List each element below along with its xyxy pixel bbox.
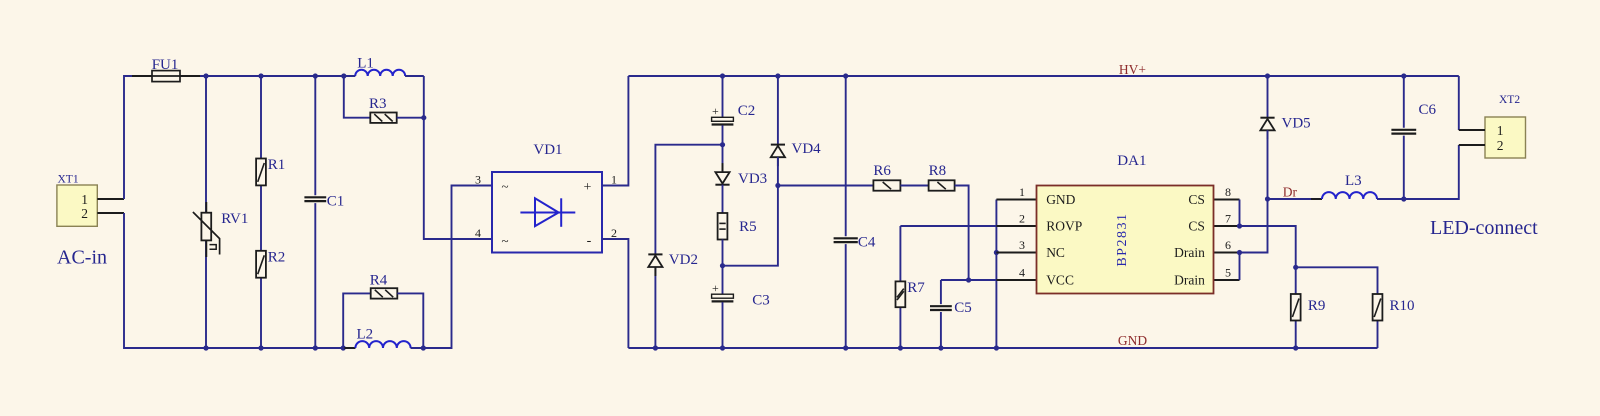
junction node A — [720, 142, 725, 147]
junction top rail RV1 — [203, 73, 208, 78]
svg-text:R6: R6 — [873, 163, 891, 179]
junction top rail L1 — [341, 73, 346, 78]
junction DA1 GND rail — [994, 345, 999, 350]
junction top rail R1 — [258, 73, 263, 78]
svg-text:C1: C1 — [327, 193, 345, 209]
svg-text:CS: CS — [1188, 219, 1205, 234]
svg-text:1: 1 — [1497, 123, 1504, 138]
wire ROVP row — [900, 225, 996, 227]
capacitor C6 — [1391, 130, 1416, 134]
diode VD4 — [771, 145, 785, 167]
svg-text:R2: R2 — [268, 249, 286, 265]
diode VD3 — [715, 163, 729, 185]
svg-text:L1: L1 — [357, 56, 374, 72]
connector XT2 — [1459, 117, 1526, 158]
junction R9 top — [1293, 265, 1298, 270]
wire CS pins tie — [1239, 200, 1241, 227]
wire DA1 GND tie — [995, 200, 997, 349]
resistor R7 — [896, 281, 906, 307]
svg-text:XT2: XT2 — [1499, 94, 1520, 106]
wire L3 to C6 — [1377, 198, 1404, 200]
fuse FU1 — [132, 71, 200, 82]
junction HV+ VD5 — [1265, 73, 1270, 78]
wire XT1 pin1 to top rail — [124, 76, 344, 199]
junction VD2 GND — [653, 345, 658, 350]
svg-text:R4: R4 — [370, 272, 388, 288]
wire CS to R9 R10 — [1240, 226, 1296, 267]
svg-text:R7: R7 — [907, 280, 925, 296]
svg-text:VD4: VD4 — [792, 141, 822, 157]
svg-text:2: 2 — [1019, 211, 1025, 225]
svg-text:R5: R5 — [739, 219, 757, 235]
capacitor C4 — [834, 238, 858, 242]
wire node B to C3 — [722, 266, 724, 295]
wire C2 to node A — [722, 125, 724, 144]
junction R7 GND — [898, 345, 903, 350]
svg-text:2: 2 — [81, 206, 88, 221]
junction bottom rail L2 left — [341, 345, 346, 350]
svg-text:BP2831: BP2831 — [1115, 213, 1130, 267]
bridge rectifier VD1 — [492, 172, 602, 253]
svg-text:Drain: Drain — [1174, 273, 1205, 288]
svg-text:3: 3 — [1019, 238, 1025, 252]
wire VD1 pin1 to HV+ rail — [602, 76, 628, 186]
svg-text:+: + — [584, 180, 592, 195]
svg-text:-: - — [587, 233, 592, 248]
inductor L3 — [1311, 192, 1388, 199]
resistor R2 — [256, 251, 266, 278]
wire HV+ to VD4 — [777, 76, 779, 145]
junction CS node — [1237, 223, 1242, 228]
inductor L1 — [344, 70, 416, 76]
resistor R6 — [873, 180, 900, 190]
wire VCC row — [941, 279, 997, 281]
svg-text:FU1: FU1 — [152, 57, 179, 73]
wire VD4 to node C — [777, 157, 779, 185]
wire RV1 column — [205, 76, 207, 348]
svg-text:4: 4 — [1019, 265, 1025, 279]
wire L1 to R3 branch — [344, 76, 371, 118]
wire node B to VD4 anode — [723, 186, 778, 266]
svg-text:C3: C3 — [752, 292, 770, 308]
svg-text:6: 6 — [1225, 238, 1231, 252]
svg-text:C2: C2 — [738, 103, 756, 119]
diode VD5 — [1260, 118, 1274, 140]
wire XT1 pin2 to bottom rail — [124, 213, 355, 348]
svg-text:L3: L3 — [1345, 173, 1362, 189]
svg-text:2: 2 — [1497, 138, 1504, 153]
capacitor C3 — [712, 281, 734, 301]
resistor R9 — [1291, 294, 1301, 321]
junction C5 GND — [938, 345, 943, 350]
svg-text:8: 8 — [1225, 185, 1231, 199]
resistor R5 — [718, 213, 728, 240]
svg-text:DA1: DA1 — [1117, 153, 1146, 169]
svg-text:1: 1 — [611, 173, 617, 187]
wire R1 R2 column — [260, 76, 262, 348]
junction HV+ C4 — [843, 73, 848, 78]
net GND rail — [628, 347, 1377, 349]
svg-text:4: 4 — [475, 226, 481, 240]
resistor R4 — [371, 288, 398, 298]
svg-text:NC: NC — [1046, 245, 1065, 260]
wire node C to R6 — [778, 185, 874, 187]
resistor R3 — [370, 113, 396, 123]
wire L2 to VD1 pin3 — [411, 186, 492, 349]
wire HV+ to C2 — [722, 76, 724, 117]
svg-text:AC-in: AC-in — [57, 247, 107, 269]
wire C6 column — [1403, 76, 1405, 199]
capacitor C1 — [304, 197, 326, 201]
svg-text:L2: L2 — [357, 327, 374, 343]
svg-text:C6: C6 — [1419, 102, 1437, 118]
svg-text:R8: R8 — [929, 163, 947, 179]
junction C6 bottom — [1401, 196, 1406, 201]
wire C3 to GND — [722, 302, 724, 348]
varistor RV1 — [193, 202, 220, 257]
wire L2 left to R4 branch — [343, 293, 371, 348]
wire L1 leads — [344, 75, 424, 77]
wire Dr row to XT2 pin2 — [1404, 145, 1459, 199]
junction Drain node — [1237, 250, 1242, 255]
wire HV+ to VD5 — [1267, 76, 1269, 118]
junction node C — [775, 183, 780, 188]
wire VD3 to R5 — [722, 185, 724, 213]
wire R7 column — [899, 226, 901, 348]
wire R3 to right vertical — [397, 117, 424, 119]
junction HV+ C2 — [720, 73, 725, 78]
svg-text:7: 7 — [1225, 211, 1231, 225]
junction NC node — [994, 250, 999, 255]
wire R10 column — [1377, 321, 1379, 349]
junction HV+ VD4 — [775, 73, 780, 78]
resistor R10 — [1373, 294, 1383, 321]
svg-text:R9: R9 — [1308, 298, 1326, 314]
svg-text:+: + — [712, 281, 719, 295]
svg-text:GND: GND — [1046, 192, 1075, 207]
svg-text:+: + — [712, 104, 719, 118]
svg-text:VCC: VCC — [1046, 273, 1074, 288]
junction C3 GND — [720, 345, 725, 350]
inductor L2 — [344, 341, 421, 348]
wire Dr node to L3 — [1268, 198, 1323, 200]
svg-text:RV1: RV1 — [221, 211, 248, 227]
svg-text:Dr: Dr — [1283, 184, 1298, 199]
junction R9 GND — [1293, 345, 1298, 350]
svg-text:GND: GND — [1118, 333, 1147, 348]
resistor R1 — [256, 159, 266, 186]
svg-text:~: ~ — [501, 233, 508, 248]
wire Drain to Dr node — [1240, 199, 1268, 253]
wire HV+ to XT2 pin1 — [1458, 76, 1460, 130]
junction node B — [720, 263, 725, 268]
connector XT1 — [57, 185, 124, 226]
svg-text:ROVP: ROVP — [1046, 219, 1082, 234]
wire VD5 to Dr node — [1267, 130, 1269, 199]
wire Drain pins tie — [1239, 253, 1241, 281]
junction bottom rail RV1 — [203, 345, 208, 350]
junction C4 GND — [843, 345, 848, 350]
svg-text:HV+: HV+ — [1119, 62, 1146, 77]
wire VD1 pin2 to GND rail — [602, 239, 628, 348]
wire node A to VD3 — [722, 145, 724, 172]
wire R9 top to R10 top — [1296, 267, 1378, 294]
junction top rail C1 — [313, 73, 318, 78]
capacitor C5 — [930, 306, 952, 310]
svg-text:3: 3 — [475, 173, 481, 187]
wire R6 to R8 — [900, 185, 928, 187]
svg-text:1: 1 — [1019, 185, 1025, 199]
svg-text:VD1: VD1 — [533, 142, 562, 158]
svg-text:Drain: Drain — [1174, 245, 1205, 260]
wire R5 to node B — [722, 240, 724, 266]
svg-text:R10: R10 — [1390, 298, 1415, 314]
junction node Dr — [1265, 196, 1270, 201]
svg-text:1: 1 — [81, 192, 88, 207]
svg-text:5: 5 — [1225, 265, 1231, 279]
junction bottom rail C1 — [313, 345, 318, 350]
svg-text:R3: R3 — [369, 96, 387, 112]
wire R9 column — [1295, 267, 1297, 348]
junction HV+ C6 — [1401, 73, 1406, 78]
junction bottom rail R2 — [258, 345, 263, 350]
ic DA1 pin stubs — [996, 200, 1239, 281]
svg-text:CS: CS — [1188, 192, 1205, 207]
wire node A to VD2 — [655, 145, 722, 348]
svg-text:~: ~ — [501, 178, 508, 193]
junction L2 right — [421, 345, 426, 350]
svg-text:C5: C5 — [954, 300, 972, 316]
wire right vertical to VD1 pin4 — [424, 76, 492, 239]
wire C4 column — [845, 76, 847, 348]
svg-text:R1: R1 — [268, 157, 286, 173]
net HV+ rail — [628, 75, 1458, 77]
junction R3 right — [421, 115, 426, 120]
svg-text:LED-connect: LED-connect — [1430, 217, 1538, 239]
wire R4 to right vertical — [397, 293, 423, 348]
svg-text:C4: C4 — [858, 234, 876, 250]
svg-text:2: 2 — [611, 226, 617, 240]
ic DA1 BP2831 — [1037, 186, 1214, 294]
wire C5 column — [940, 280, 942, 348]
capacitor C2 — [712, 104, 734, 124]
svg-text:VD5: VD5 — [1282, 115, 1311, 131]
diode VD2 — [648, 254, 662, 276]
svg-text:VD3: VD3 — [738, 171, 767, 187]
wire C1 column — [314, 76, 316, 348]
wire R8 to VCC row — [955, 186, 969, 281]
junction VCC node — [966, 277, 971, 282]
resistor R8 — [929, 180, 955, 190]
svg-text:VD2: VD2 — [669, 252, 698, 268]
svg-text:XT1: XT1 — [58, 174, 79, 186]
